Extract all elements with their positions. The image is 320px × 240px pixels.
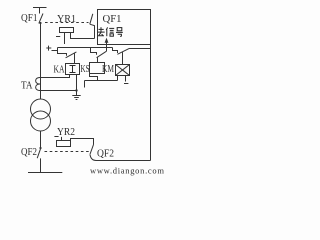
wire YR2 to QF2 aux contact xyxy=(71,139,94,145)
wire plus to dc bus xyxy=(52,48,58,51)
svg-text:KA: KA xyxy=(54,64,65,76)
wire main feeder line xyxy=(40,23,42,90)
signal box xyxy=(98,10,151,45)
svg-text:KS: KS xyxy=(81,63,90,75)
svg-text:www.diangon.com: www.diangon.com xyxy=(90,165,165,175)
transformer T1 winding 1 xyxy=(31,99,51,119)
wire KA contact feed xyxy=(58,48,67,56)
node minus label YR2 xyxy=(54,136,58,138)
node I element glyph xyxy=(70,66,76,73)
svg-text:YR1: YR1 xyxy=(57,13,76,25)
wire KS contact feed xyxy=(91,48,97,55)
svg-text:QF1: QF1 xyxy=(21,12,38,24)
label 去信号 (to signal) xyxy=(98,27,123,36)
wire KM to right riser xyxy=(130,48,151,50)
node QF2 pivot xyxy=(39,147,41,149)
wire YR1 negative lead xyxy=(64,33,66,45)
contact QF1 aux blade xyxy=(90,14,93,24)
wire TA return xyxy=(41,90,77,92)
wire KM bottom-left stub xyxy=(117,76,119,81)
node QF1 pivot xyxy=(39,22,41,24)
svg-text:QF2: QF2 xyxy=(97,148,114,160)
wire to transformer xyxy=(40,91,42,100)
node arrowhead xyxy=(105,38,109,43)
bus bar bottom xyxy=(28,172,62,174)
wire arrow stem to signal xyxy=(106,42,108,51)
svg-text:QF1: QF1 xyxy=(103,13,122,25)
wire mech linkage QF2 (dashed) xyxy=(45,151,90,153)
node plus supply xyxy=(46,47,51,49)
wire KA left stub to TA xyxy=(41,75,70,78)
breaker QF2 blade xyxy=(37,148,41,158)
svg-text:TA: TA xyxy=(21,80,33,92)
svg-text:YR2: YR2 xyxy=(57,126,75,138)
breaker QF1 blade xyxy=(39,14,43,24)
wire KA right lead to ground xyxy=(76,75,78,96)
relay KA box xyxy=(66,64,80,75)
wire YR1 to QF1 aux contact xyxy=(71,33,95,39)
svg-text:KM: KM xyxy=(102,63,114,75)
svg-text:QF2: QF2 xyxy=(21,146,37,158)
transformer T1 winding 2 xyxy=(31,111,51,131)
wire YR2 negative lead xyxy=(61,137,63,141)
wire under-row link xyxy=(85,80,118,82)
wire right riser xyxy=(150,45,152,161)
relay KS box xyxy=(90,63,105,74)
wire KA contact drop xyxy=(74,53,76,64)
wire stub down left xyxy=(84,81,86,88)
wire aux contact drop xyxy=(90,24,95,38)
wire KS contact drop xyxy=(97,57,99,63)
contact KM blade xyxy=(117,48,129,54)
wire KM contact drop xyxy=(122,52,124,64)
wire xyxy=(40,131,42,147)
wire dc bus xyxy=(58,47,113,49)
wire below QF2 xyxy=(40,158,42,172)
wire aux to bottom run xyxy=(90,155,151,161)
node minus label YR1 xyxy=(56,36,60,38)
contact KS blade xyxy=(97,51,107,58)
relay KM box xyxy=(116,65,130,76)
node minus label KM xyxy=(124,83,128,85)
contact QF2 aux blade xyxy=(90,145,94,155)
wire stub from bus xyxy=(39,8,41,14)
wire KM negative lead xyxy=(125,76,127,82)
bus bar top xyxy=(33,7,47,9)
contact KA blade xyxy=(66,52,77,58)
wire mech linkage QF1 (dashed) xyxy=(45,22,89,24)
node junction TA return xyxy=(75,89,77,91)
wire KS bottom stair wiring xyxy=(90,74,98,81)
transformer TA winding loops xyxy=(36,77,41,90)
coil YR1 xyxy=(60,28,74,33)
coil YR2 xyxy=(57,141,71,147)
ground xyxy=(72,95,80,97)
wire KM contact feed xyxy=(113,48,118,54)
